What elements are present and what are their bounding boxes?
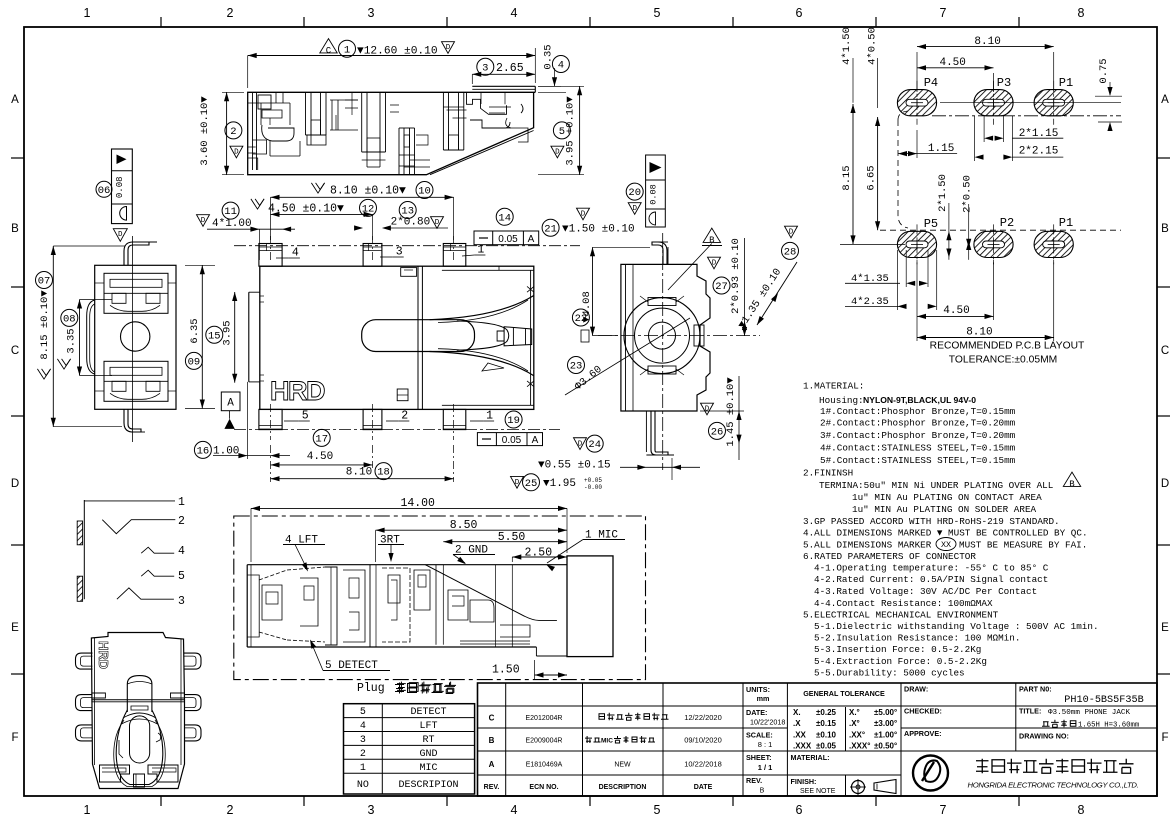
svg-text:8: 8 <box>1078 803 1085 817</box>
svg-text:B: B <box>489 736 495 745</box>
svg-text:MATERIAL:: MATERIAL: <box>791 753 830 762</box>
svg-text:2*0.80: 2*0.80 <box>391 216 431 228</box>
svg-text:DRAWING NO:: DRAWING NO: <box>1019 732 1069 741</box>
svg-text:20: 20 <box>628 187 641 199</box>
svg-text:0.08: 0.08 <box>649 184 659 204</box>
svg-text:5: 5 <box>654 6 661 20</box>
svg-text:▼1.95: ▼1.95 <box>543 478 576 490</box>
svg-text:P1: P1 <box>1059 76 1073 90</box>
svg-text:2: 2 <box>227 6 234 20</box>
svg-text:5.ALL DIMENSIONS MARKER: 5.ALL DIMENSIONS MARKER <box>803 539 932 550</box>
svg-text:10/22'2018: 10/22'2018 <box>750 718 785 727</box>
svg-text:P4: P4 <box>924 76 938 90</box>
svg-text:D: D <box>1161 478 1169 490</box>
svg-text:6.RATED PARAMETERS OF CONNECTO: 6.RATED PARAMETERS OF CONNECTOR <box>803 551 976 562</box>
svg-text:3: 3 <box>368 803 375 817</box>
svg-text:18: 18 <box>377 467 390 479</box>
svg-text:DESCRIPION: DESCRIPION <box>398 780 458 791</box>
svg-text:09: 09 <box>188 356 201 368</box>
svg-text:2: 2 <box>360 749 366 760</box>
svg-text:19: 19 <box>507 415 520 427</box>
svg-text:±0.05: ±0.05 <box>816 742 837 751</box>
svg-text:NEW: NEW <box>614 762 631 769</box>
svg-text:1: 1 <box>360 763 366 774</box>
svg-text:D: D <box>581 211 586 219</box>
svg-text:GENERAL TOLERANCE: GENERAL TOLERANCE <box>803 689 885 698</box>
svg-text:4: 4 <box>360 721 366 732</box>
svg-text:3: 3 <box>360 735 366 746</box>
svg-text:Housing:: Housing: <box>819 395 864 406</box>
svg-text:GND: GND <box>419 749 437 760</box>
svg-text:▼1.50 ±0.10: ▼1.50 ±0.10 <box>562 224 635 236</box>
svg-text:8.10: 8.10 <box>966 327 992 339</box>
svg-text:D: D <box>446 44 451 52</box>
svg-text:DATE: DATE <box>694 784 713 791</box>
svg-text:10: 10 <box>418 186 431 198</box>
svg-text:D: D <box>555 149 560 157</box>
svg-text:C: C <box>11 345 19 357</box>
svg-text:6.35: 6.35 <box>189 318 201 343</box>
svg-text:3.95 +0.10▼: 3.95 +0.10▼ <box>565 96 577 166</box>
svg-text:REV.: REV. <box>746 776 762 785</box>
svg-text:08: 08 <box>63 313 76 325</box>
svg-text:D: D <box>712 260 717 268</box>
svg-text:7: 7 <box>940 6 947 20</box>
svg-text:06: 06 <box>98 185 111 197</box>
svg-text:8.10: 8.10 <box>346 467 372 479</box>
svg-text:E2012004R: E2012004R <box>526 715 563 722</box>
svg-text:1: 1 <box>84 6 91 20</box>
svg-text:5-3.Insertion Force: 0.5-2.2K: 5-3.Insertion Force: 0.5-2.2Kg <box>814 644 981 655</box>
svg-text:RT: RT <box>422 735 434 746</box>
svg-text:14: 14 <box>498 212 511 224</box>
svg-text:TERMINA:50u″ MIN Ni UNDER PLAT: TERMINA:50u″ MIN Ni UNDER PLATING OVER A… <box>819 480 1053 491</box>
svg-text:2: 2 <box>230 126 236 138</box>
svg-text:2#.Contact:Phosphor Bronze,T=0: 2#.Contact:Phosphor Bronze,T=0.20mm <box>820 418 1016 429</box>
svg-text:4: 4 <box>558 60 564 72</box>
svg-text:TOLERANCE:±0.05MM: TOLERANCE:±0.05MM <box>949 355 1057 366</box>
svg-text:5: 5 <box>302 410 309 423</box>
svg-text:E: E <box>11 622 19 634</box>
svg-text:8 : 1: 8 : 1 <box>758 740 773 749</box>
svg-text:6.65: 6.65 <box>866 165 878 190</box>
svg-text:4*1.50: 4*1.50 <box>841 27 853 65</box>
svg-text:A: A <box>11 94 19 106</box>
svg-text:2*0.93 ±0.10: 2*0.93 ±0.10 <box>730 238 742 314</box>
svg-text:1: 1 <box>84 803 91 817</box>
svg-text:.XX: .XX <box>793 731 807 740</box>
svg-text:SHEET:: SHEET: <box>746 753 772 762</box>
svg-text:8.10 ±0.10▼: 8.10 ±0.10▼ <box>330 185 406 198</box>
svg-text:4-1.Operating temperature: -55: 4-1.Operating temperature: -55° C to 85°… <box>814 563 1049 574</box>
svg-text:4: 4 <box>511 803 518 817</box>
svg-text:5-4.Extraction Force: 0.5-2.2: 5-4.Extraction Force: 0.5-2.2Kg <box>814 656 987 667</box>
svg-text:2: 2 <box>401 410 408 423</box>
svg-text:▼0.55 ±0.15: ▼0.55 ±0.15 <box>538 460 611 472</box>
svg-text:D: D <box>705 406 710 414</box>
svg-text:3.GP PASSED ACCORD WITH HRD-Ro: 3.GP PASSED ACCORD WITH HRD-RoHS-219 STA… <box>803 516 1060 527</box>
svg-text:07: 07 <box>38 276 51 288</box>
svg-text:28: 28 <box>784 246 797 258</box>
svg-text:09/10/2020: 09/10/2020 <box>684 736 722 745</box>
svg-text:23: 23 <box>570 361 583 373</box>
svg-text:±5.00°: ±5.00° <box>874 708 897 717</box>
svg-text:±0.50°: ±0.50° <box>874 742 897 751</box>
svg-text:2: 2 <box>227 803 234 817</box>
svg-text:4.ALL DIMENSIONS MARKED ▼ MUS: 4.ALL DIMENSIONS MARKED ▼ MUST BE CONTRO… <box>803 528 1088 539</box>
svg-text:E2009004R: E2009004R <box>526 738 563 745</box>
svg-text:2.FININSH: 2.FININSH <box>803 468 853 479</box>
svg-text:2.65: 2.65 <box>496 62 524 75</box>
svg-text:±0.10: ±0.10 <box>816 731 837 740</box>
svg-text:4*1.00: 4*1.00 <box>212 218 252 230</box>
svg-text:A: A <box>489 760 495 769</box>
svg-text:5: 5 <box>360 707 366 718</box>
svg-text:REV.: REV. <box>484 784 500 791</box>
svg-text:NYLON-9T,BLACK,UL 94V-0: NYLON-9T,BLACK,UL 94V-0 <box>863 395 976 405</box>
svg-text:1#.Contact:Phosphor Bronze,T=0: 1#.Contact:Phosphor Bronze,T=0.15mm <box>820 406 1016 417</box>
svg-text:B: B <box>1161 223 1169 235</box>
svg-text:1.50: 1.50 <box>492 664 520 677</box>
svg-text:4-2.Rated Current: 0.5A/PIN Si: 4-2.Rated Current: 0.5A/PIN Signal conta… <box>814 574 1048 585</box>
svg-text:Plug: Plug <box>357 682 385 695</box>
svg-text:3.35: 3.35 <box>65 328 77 353</box>
svg-text:A: A <box>227 398 234 410</box>
svg-text:CHECKED:: CHECKED: <box>904 707 942 716</box>
svg-text:HONGRIDA ELECTRONIC TECHNOLOGY: HONGRIDA ELECTRONIC TECHNOLOGY CO.,LTD. <box>968 781 1139 790</box>
svg-text:XX: XX <box>941 540 951 550</box>
svg-text:1.MATERIAL:: 1.MATERIAL: <box>803 380 864 391</box>
svg-text:3#.Contact:Phosphor Bronze,T=0: 3#.Contact:Phosphor Bronze,T=0.20mm <box>820 430 1016 441</box>
svg-text:6: 6 <box>796 6 803 20</box>
svg-text:HRD: HRD <box>270 376 325 406</box>
svg-text:FINISH:: FINISH: <box>791 777 817 786</box>
svg-text:ECN NO.: ECN NO. <box>529 784 558 791</box>
svg-text:5-1.Dielectric withstanding Vo: 5-1.Dielectric withstanding Voltage : 50… <box>814 621 1099 632</box>
svg-text:26: 26 <box>711 426 724 438</box>
svg-text:5-5.Durability: 5000 cycles: 5-5.Durability: 5000 cycles <box>814 668 965 679</box>
svg-text:17: 17 <box>315 433 328 445</box>
svg-text:SEE NOTE: SEE NOTE <box>800 788 836 795</box>
svg-text:-0.00: -0.00 <box>584 484 602 491</box>
svg-text:▼4.08: ▼4.08 <box>581 291 593 323</box>
svg-text:4: 4 <box>292 247 299 260</box>
svg-text:1.65H H=3.60mm: 1.65H H=3.60mm <box>1078 721 1139 729</box>
svg-text:X.°: X.° <box>849 708 860 717</box>
svg-text:5.ELECTRICAL MECHANICAL ENVIRO: 5.ELECTRICAL MECHANICAL ENVIRONMENT <box>803 610 999 621</box>
svg-text:RECOMMENDED P.C.B LAYOUT: RECOMMENDED P.C.B LAYOUT <box>930 341 1085 352</box>
svg-text:10/22/2018: 10/22/2018 <box>684 760 722 769</box>
svg-text:P5: P5 <box>924 217 938 231</box>
svg-text:MUST BE MEASURE BY FAI.: MUST BE MEASURE BY FAI. <box>959 539 1087 550</box>
svg-text:X.: X. <box>793 708 801 717</box>
svg-text:4: 4 <box>511 6 518 20</box>
svg-text:3: 3 <box>396 246 403 259</box>
svg-text:3.60 ±0.10▼: 3.60 ±0.10▼ <box>199 96 211 166</box>
svg-text:15: 15 <box>208 330 221 342</box>
svg-text:P2: P2 <box>1000 216 1014 230</box>
svg-text:.XX°: .XX° <box>849 731 865 740</box>
svg-text:D: D <box>578 440 583 448</box>
svg-text:3: 3 <box>368 6 375 20</box>
svg-text:TITLE:: TITLE: <box>1019 707 1041 716</box>
svg-text:PART N0:: PART N0: <box>1019 685 1052 694</box>
svg-text:D: D <box>11 478 19 490</box>
svg-text:3: 3 <box>482 62 488 74</box>
svg-text:4#.Contact:STAINLESS STEEL,T=0: 4#.Contact:STAINLESS STEEL,T=0.15mm <box>820 443 1016 454</box>
svg-text:16: 16 <box>197 445 210 457</box>
svg-text:F: F <box>1161 732 1168 744</box>
svg-text:25: 25 <box>525 478 538 490</box>
svg-text:.X°: .X° <box>849 719 860 728</box>
svg-text:+0.05: +0.05 <box>584 477 602 484</box>
svg-text:E: E <box>1161 622 1169 634</box>
svg-text:MIC: MIC <box>419 763 437 774</box>
svg-text:5: 5 <box>654 803 661 817</box>
svg-text:LFT: LFT <box>419 721 437 732</box>
svg-text:±0.25: ±0.25 <box>816 708 837 717</box>
svg-text:1u″ MIN Au PLATING ON SOLDER A: 1u″ MIN Au PLATING ON SOLDER AREA <box>852 504 1037 515</box>
svg-text:8.15: 8.15 <box>841 165 853 190</box>
svg-text:8: 8 <box>1078 6 1085 20</box>
svg-text:D: D <box>515 479 520 487</box>
svg-text:D: D <box>632 205 637 213</box>
svg-text:DATE:: DATE: <box>746 708 767 717</box>
svg-text:C: C <box>326 46 332 56</box>
svg-text:DESCRIPTION: DESCRIPTION <box>599 784 647 791</box>
svg-text:.XXX°: .XXX° <box>849 742 870 751</box>
svg-text:4.50: 4.50 <box>307 451 333 463</box>
svg-text:D: D <box>201 217 206 225</box>
svg-text:C: C <box>489 714 495 723</box>
svg-text:F: F <box>11 732 18 744</box>
svg-text:UNITS:: UNITS: <box>746 685 770 694</box>
svg-text:1u″ MIN Au PLATING ON CONTACT: 1u″ MIN Au PLATING ON CONTACT AREA <box>852 492 1042 503</box>
svg-text:NO: NO <box>357 780 369 791</box>
svg-text:B: B <box>11 223 19 235</box>
svg-text:E1810469A: E1810469A <box>526 762 563 769</box>
svg-text:.X: .X <box>793 719 801 728</box>
svg-text:4-3.Rated Voltage: 30V AC/DC P: 4-3.Rated Voltage: 30V AC/DC Per Contact <box>814 586 1037 597</box>
svg-text:3.95: 3.95 <box>222 320 234 345</box>
svg-text:4: 4 <box>178 545 185 558</box>
svg-text:1 / 1: 1 / 1 <box>758 763 773 772</box>
svg-text:24: 24 <box>588 439 601 451</box>
svg-text:B: B <box>709 236 715 246</box>
svg-text:27: 27 <box>715 281 728 293</box>
svg-text:PH10-5BS5F35B: PH10-5BS5F35B <box>1064 695 1143 706</box>
svg-text:6: 6 <box>796 803 803 817</box>
svg-text:2*0.50: 2*0.50 <box>962 175 974 213</box>
svg-text:0.05: 0.05 <box>502 435 522 446</box>
svg-text:0.05: 0.05 <box>498 234 518 245</box>
svg-text:21: 21 <box>544 223 557 235</box>
svg-text:11: 11 <box>224 206 237 218</box>
svg-text:.XXX: .XXX <box>793 742 812 751</box>
svg-text:4*0.50: 4*0.50 <box>867 27 879 65</box>
svg-text:D: D <box>789 229 794 237</box>
svg-text:1.45 ±0.10▼: 1.45 ±0.10▼ <box>725 377 737 447</box>
svg-text:5: 5 <box>178 570 185 583</box>
svg-text:0.08: 0.08 <box>115 176 125 198</box>
svg-text:4.50: 4.50 <box>939 57 965 69</box>
svg-text:mm: mm <box>757 694 770 703</box>
svg-text:3: 3 <box>178 595 185 608</box>
svg-text:B: B <box>1069 480 1075 490</box>
svg-text:2: 2 <box>178 515 185 528</box>
svg-text:2*2.15: 2*2.15 <box>1019 146 1059 158</box>
svg-text:12/22/2020: 12/22/2020 <box>684 713 722 722</box>
svg-text:4.50: 4.50 <box>943 305 969 317</box>
svg-text:±0.15: ±0.15 <box>816 719 837 728</box>
svg-text:1: 1 <box>477 244 484 257</box>
svg-text:DRAW:: DRAW: <box>904 685 928 694</box>
svg-text:1: 1 <box>344 44 350 56</box>
svg-text:2*1.50: 2*1.50 <box>937 174 949 212</box>
svg-text:0.75: 0.75 <box>1098 58 1110 83</box>
svg-text:A: A <box>528 234 535 245</box>
svg-text:SCALE:: SCALE: <box>746 731 773 740</box>
svg-text:APPROVE:: APPROVE: <box>904 729 942 738</box>
svg-text:D: D <box>234 149 239 157</box>
svg-text:8.15 ±0.10▼: 8.15 ±0.10▼ <box>39 290 51 360</box>
svg-text:HRD: HRD <box>96 641 111 669</box>
svg-text:5#.Contact:STAINLESS STEEL,T=0: 5#.Contact:STAINLESS STEEL,T=0.15mm <box>820 455 1016 466</box>
svg-text:7: 7 <box>940 803 947 817</box>
svg-text:A: A <box>1161 94 1169 106</box>
svg-text:5-2.Insulation Resistance: 100: 5-2.Insulation Resistance: 100 MΩMin. <box>814 633 1020 644</box>
svg-text:C: C <box>1161 345 1169 357</box>
svg-text:P1: P1 <box>1059 216 1073 230</box>
svg-text:Φ3.50mm PHONE JACK: Φ3.50mm PHONE JACK <box>1048 709 1130 717</box>
svg-text:±1.00°: ±1.00° <box>874 731 897 740</box>
svg-text:B: B <box>760 788 765 795</box>
svg-text:P3: P3 <box>997 76 1011 90</box>
svg-text:1.15: 1.15 <box>928 143 954 155</box>
svg-text:4-4.Contact Resistance: 100mΩM: 4-4.Contact Resistance: 100mΩMAX <box>814 598 993 609</box>
svg-text:D: D <box>435 219 440 227</box>
svg-text:MIC: MIC <box>601 738 613 745</box>
svg-text:1: 1 <box>486 410 493 423</box>
svg-text:DETECT: DETECT <box>410 707 446 718</box>
svg-text:A: A <box>532 435 539 446</box>
svg-text:±3.00°: ±3.00° <box>874 719 897 728</box>
svg-text:14.00: 14.00 <box>400 497 435 510</box>
svg-text:D: D <box>118 231 123 239</box>
svg-text:1: 1 <box>178 496 185 509</box>
